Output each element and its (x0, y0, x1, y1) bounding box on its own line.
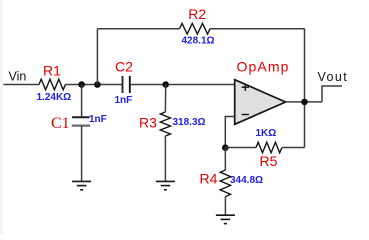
wire R5 to feedback vertical (282, 147, 305, 149)
node dot at feedback tap (94, 81, 101, 88)
value 1KΩ (256, 128, 277, 139)
node Vin label (9, 70, 27, 84)
svg-text:344.8Ω: 344.8Ω (230, 175, 263, 186)
capacitor C1 (72, 117, 90, 125)
node dot at C1 tap (78, 81, 85, 88)
label R3 (139, 114, 157, 130)
ground under C1 (72, 181, 91, 189)
svg-text:1KΩ: 1KΩ (256, 128, 277, 139)
label R4 (200, 171, 218, 187)
wire C1 bottom lead (81, 126, 83, 182)
svg-text:R4: R4 (200, 171, 218, 187)
value 344.8Ω (230, 175, 263, 186)
wire Vin to R1 (4, 84, 40, 86)
label OpAmp U1 (237, 58, 290, 74)
left window edge strip (0, 0, 3, 234)
svg-text:Vin: Vin (9, 70, 27, 84)
wire C1 top lead (81, 85, 83, 118)
wire top rail right of R2 (210, 28, 304, 30)
wire R4 top lead (224, 148, 226, 170)
wire C2 to op-amp + input (130, 84, 235, 86)
value 1nF of C2 (115, 95, 133, 106)
wire Vout step (322, 86, 342, 102)
wire op-amp output (286, 101, 322, 103)
node dot at R4/R5 junction (222, 144, 229, 151)
label R5 (260, 153, 278, 169)
svg-text:R5: R5 (260, 153, 278, 169)
svg-text:C2: C2 (115, 58, 133, 74)
svg-text:1nF: 1nF (89, 114, 107, 125)
resistor R3 (160, 112, 170, 136)
wire top rail left of R2 (97, 28, 179, 30)
value 1.24KΩ (37, 92, 72, 103)
label R1 (43, 62, 61, 78)
svg-text:C1: C1 (51, 115, 70, 132)
node dot at R3 tap (162, 81, 169, 88)
svg-text:R3: R3 (139, 114, 157, 130)
resistor R1 (39, 79, 65, 90)
value 1nF of C1 (89, 114, 107, 125)
ground under R4 (216, 215, 235, 223)
svg-text:428.1Ω: 428.1Ω (182, 36, 215, 47)
ground under R3 (156, 181, 175, 189)
node dot at output (301, 99, 308, 106)
value 318.3Ω (173, 117, 206, 128)
op-amp U1 triangle (235, 80, 286, 125)
svg-text:1.24KΩ: 1.24KΩ (37, 92, 72, 103)
svg-text:1nF: 1nF (115, 95, 133, 106)
capacitor C2 (123, 76, 130, 93)
label C1 (51, 115, 70, 132)
wire R4 bottom lead (224, 197, 226, 216)
svg-text:318.3Ω: 318.3Ω (173, 117, 206, 128)
wire op-amp - input (225, 117, 234, 148)
wire R3 bottom lead (164, 136, 166, 181)
svg-text:OpAmp: OpAmp (237, 58, 290, 74)
wire junction to R5 (225, 147, 256, 149)
value 428.1Ω (182, 36, 215, 47)
wire R3 top lead (164, 85, 166, 113)
svg-text:R1: R1 (43, 62, 61, 78)
svg-text:R2: R2 (188, 6, 206, 22)
label R2 (188, 6, 206, 22)
node Vout label (318, 70, 349, 84)
svg-text:Vout: Vout (318, 70, 349, 84)
wire feedback right vertical (304, 29, 306, 148)
label C2 (115, 58, 133, 74)
wire feedback riser up to top rail (96, 29, 98, 85)
resistor R4 (220, 170, 230, 197)
resistor R5 (256, 142, 282, 153)
resistor R2 (180, 23, 211, 34)
wire R1 to C2 (65, 84, 122, 86)
